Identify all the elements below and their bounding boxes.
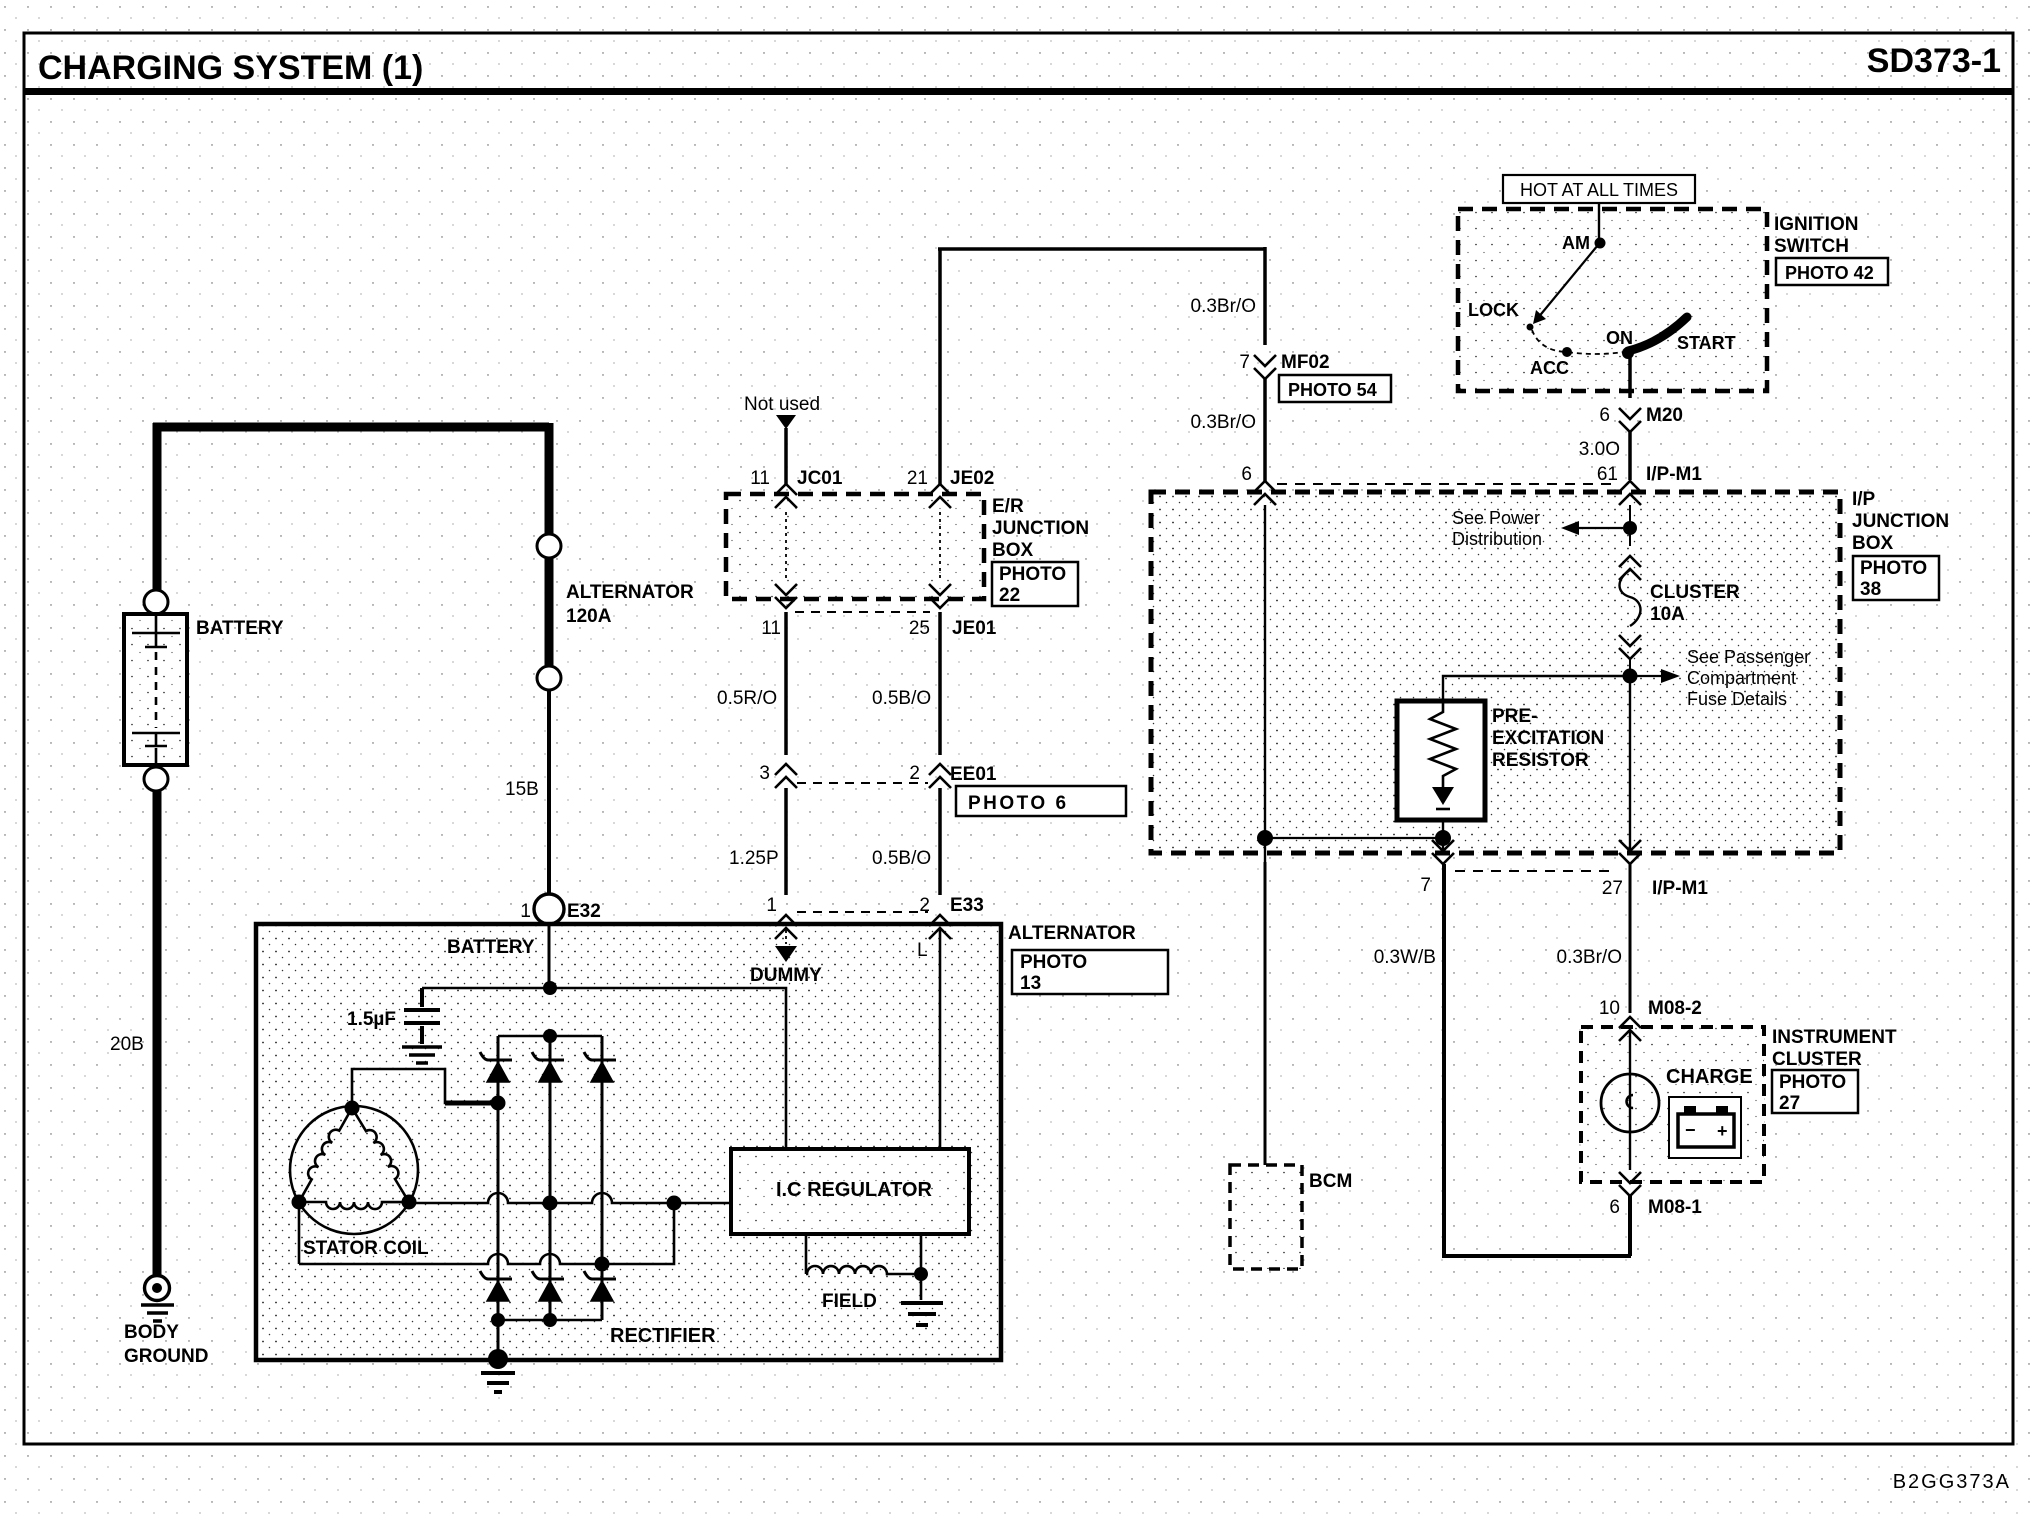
JC01 pass-through dotted wire <box>785 512 787 578</box>
JE01 connector link dashed line <box>795 611 930 613</box>
svg-text:0.3Br/O: 0.3Br/O <box>1191 412 1256 433</box>
svg-text:I.C REGULATOR: I.C REGULATOR <box>776 1179 932 1201</box>
resistor element zigzag <box>1430 701 1456 787</box>
svg-text:SD373-1: SD373-1 <box>1867 42 2001 80</box>
svg-text:ALTERNATOR: ALTERNATOR <box>1008 923 1136 944</box>
wire 0.3Br/O from pin27 to cluster <box>1629 864 1632 1013</box>
svg-text:10: 10 <box>1599 998 1620 1019</box>
E33 link dashed line <box>797 911 928 913</box>
wire IC regulator to field coil left <box>805 1234 808 1274</box>
photo 42 box <box>1776 258 1888 285</box>
diode D6 bottom <box>584 1271 616 1301</box>
node stator bottom-right vertex <box>402 1195 417 1210</box>
battery warning icon body <box>1678 1114 1734 1147</box>
svg-text:E/R: E/R <box>992 496 1024 517</box>
svg-text:PHOTO: PHOTO <box>999 564 1066 585</box>
svg-text:7: 7 <box>1420 875 1431 896</box>
svg-text:I/P-M1: I/P-M1 <box>1646 464 1702 485</box>
svg-text:0.3W/B: 0.3W/B <box>1374 947 1436 968</box>
svg-text:120A: 120A <box>566 606 612 627</box>
wire ignition ON output <box>1628 353 1632 398</box>
pre-excitation resistor R1 box <box>1397 701 1485 820</box>
connector M20 chevrons <box>1619 408 1641 432</box>
node top bus center <box>543 1029 557 1043</box>
svg-text:6: 6 <box>1609 1197 1620 1218</box>
svg-text:2: 2 <box>909 763 920 784</box>
svg-text:10A: 10A <box>1650 604 1685 625</box>
wire BCM 0.3Br/O drop <box>1264 862 1267 1165</box>
svg-text:Compartment: Compartment <box>1687 668 1796 688</box>
svg-text:B2GG373A: B2GG373A <box>1893 1471 2011 1493</box>
diode D2 top <box>532 1052 564 1082</box>
svg-text:PHOTO: PHOTO <box>1860 558 1927 579</box>
svg-text:AM: AM <box>1562 233 1590 253</box>
wire L to I.C regulator <box>939 930 942 1149</box>
alternator box <box>256 924 1001 1360</box>
svg-text:See Passenger: See Passenger <box>1687 647 1810 667</box>
svg-text:6: 6 <box>1599 405 1610 426</box>
connector 61 chevrons at I/P box top <box>1619 481 1641 505</box>
not used terminator triangle <box>776 415 796 429</box>
svg-text:1.5µF: 1.5µF <box>347 1009 396 1030</box>
rectifier column 2 <box>549 1036 552 1320</box>
node BCM wire junction <box>1257 830 1273 846</box>
svg-text:START: START <box>1677 333 1736 353</box>
wire 0.5B/O upper <box>938 612 942 755</box>
wire battery top horizontal (thick) <box>153 423 549 432</box>
BCM box (dashed) <box>1230 1165 1302 1269</box>
svg-text:3: 3 <box>759 763 770 784</box>
svg-text:JC01: JC01 <box>797 468 843 489</box>
photo 13 box <box>1012 950 1168 994</box>
svg-text:61: 61 <box>1597 464 1618 485</box>
node stator bottom-left vertex <box>292 1195 307 1210</box>
svg-text:3.0O: 3.0O <box>1579 439 1620 460</box>
node ACC position <box>1562 347 1572 357</box>
svg-text:CLUSTER: CLUSTER <box>1650 582 1740 603</box>
connector E32 terminal circle <box>534 894 564 924</box>
node power distribution tap <box>1623 521 1637 535</box>
battery bottom terminal circle <box>144 767 168 791</box>
svg-text:JE01: JE01 <box>952 618 997 639</box>
svg-text:M08-2: M08-2 <box>1648 998 1702 1019</box>
wire 0.3Br/O MF02 to I/P box <box>1263 378 1267 482</box>
capacitor ground <box>402 1047 442 1063</box>
charge lamp circle <box>1601 1074 1659 1132</box>
field coil L1 <box>806 1266 888 1274</box>
svg-text:1: 1 <box>520 901 531 922</box>
svg-text:LOCK: LOCK <box>1468 300 1519 320</box>
wire E32 into box <box>548 922 551 990</box>
node bottom bus column2 <box>543 1313 557 1327</box>
svg-text:BODY: BODY <box>124 1322 179 1343</box>
connector EE01 chevrons right <box>929 764 951 788</box>
svg-text:I/P-M1: I/P-M1 <box>1652 878 1708 899</box>
svg-text:ALTERNATOR: ALTERNATOR <box>566 582 694 603</box>
battery icon terminals <box>1684 1106 1696 1114</box>
svg-text:−: − <box>1685 1120 1696 1140</box>
svg-text:INSTRUMENT: INSTRUMENT <box>1772 1027 1897 1048</box>
wire JE02 riser from top run <box>938 249 942 485</box>
svg-text:13: 13 <box>1020 973 1041 994</box>
battery warning icon outer box <box>1669 1097 1741 1158</box>
node resistor bottom junction <box>1435 830 1451 846</box>
wire BCM branch horizontal <box>1265 837 1443 839</box>
svg-text:22: 22 <box>999 585 1020 606</box>
dummy arrow (no connection) <box>785 930 787 944</box>
svg-text:11: 11 <box>761 618 781 639</box>
body ground symbol <box>145 1276 170 1301</box>
field ground symbol <box>901 1303 943 1325</box>
svg-text:IGNITION: IGNITION <box>1774 214 1858 235</box>
connector EE01 chevrons left <box>775 764 797 788</box>
rectifier top bus <box>498 1035 602 1038</box>
svg-text:See Power: See Power <box>1452 508 1540 528</box>
wire into charge lamp <box>1629 1030 1631 1170</box>
wire 0.5B/O lower <box>938 788 942 895</box>
wire connector6 down to BCM (through box) <box>1264 505 1266 862</box>
diode D4 bottom <box>480 1271 512 1301</box>
svg-text:CHARGE: CHARGE <box>1666 1066 1753 1088</box>
svg-text:+: + <box>1717 1121 1728 1141</box>
key stroke ON to START (thick) <box>1628 317 1687 351</box>
node passenger fuse tap <box>1623 669 1638 684</box>
connector JC01 chevrons at box top <box>775 484 797 508</box>
wire 15B segment <box>547 690 551 895</box>
svg-text:38: 38 <box>1860 579 1881 600</box>
node AM terminal <box>1595 238 1606 249</box>
not used stub wire <box>784 428 788 485</box>
svg-text:0.5B/O: 0.5B/O <box>872 688 931 709</box>
connector M08-1 chevrons <box>1619 1172 1641 1196</box>
wire 1.25P <box>784 788 788 895</box>
svg-text:BATTERY: BATTERY <box>447 937 535 958</box>
wire stator bottom-left vertex drop <box>298 1202 301 1264</box>
svg-text:E33: E33 <box>950 895 984 916</box>
svg-text:Not used: Not used <box>744 394 820 415</box>
node middle bus right <box>667 1196 682 1211</box>
svg-text:PRE-: PRE- <box>1492 706 1537 727</box>
ignition switch wiper AM to LOCK <box>1537 245 1598 319</box>
E/R junction box (dashed) <box>726 494 984 599</box>
svg-text:0.5B/O: 0.5B/O <box>872 848 931 869</box>
svg-text:I/P: I/P <box>1852 489 1876 510</box>
connector 6 chevrons at I/P box top <box>1254 481 1276 505</box>
wire stator top vertex to rectifier column 1 <box>352 1069 470 1108</box>
node rectifier ground <box>488 1349 508 1369</box>
hot at all times box <box>1503 175 1695 203</box>
fuse chevrons bottom <box>1619 635 1641 659</box>
svg-text:BCM: BCM <box>1309 1171 1352 1192</box>
node rectifier column1 phase tap <box>491 1096 506 1111</box>
rectifier lower phase bus <box>299 1203 674 1264</box>
connector 7 chevrons at box bottom <box>1432 840 1454 864</box>
wire alternator feed vertical (thick) <box>545 423 554 534</box>
diode D1 top <box>480 1052 512 1082</box>
fusible link wire segment <box>545 558 554 666</box>
connector JE02 chevrons at box top <box>929 484 951 508</box>
svg-text:CHARGING SYSTEM (1): CHARGING SYSTEM (1) <box>38 49 423 87</box>
svg-text:JE02: JE02 <box>950 468 994 489</box>
title rule <box>24 88 2013 95</box>
svg-text:PHOTO 6: PHOTO 6 <box>968 793 1069 814</box>
wire 0.3Br/O down to MF02 <box>1263 247 1267 345</box>
wire ignition feed inside box <box>1629 505 1631 546</box>
switch position arc LOCK-ACC-ON (dashed) <box>1532 330 1624 354</box>
fusible link bottom circle <box>537 666 561 690</box>
stator coil delta winding bottom side <box>299 1202 409 1209</box>
diode D3 top <box>584 1052 616 1082</box>
svg-text:15B: 15B <box>505 779 539 800</box>
stator coil delta winding left side <box>293 1105 352 1203</box>
see power distribution arrow <box>1578 527 1623 529</box>
wire battery sense horizontal to I.C regulator <box>422 988 786 1149</box>
svg-text:L: L <box>917 940 928 961</box>
svg-text:RESISTOR: RESISTOR <box>1492 750 1589 771</box>
svg-text:21: 21 <box>907 468 928 489</box>
svg-text:RECTIFIER: RECTIFIER <box>610 1325 716 1347</box>
connector E33 chevrons pin1 <box>775 915 797 939</box>
rectifier column 1 <box>497 1036 500 1359</box>
svg-text:BOX: BOX <box>992 540 1034 561</box>
wire 20B battery to body ground (thick) <box>153 791 162 1276</box>
see passenger arrow <box>1637 675 1662 677</box>
svg-text:JUNCTION: JUNCTION <box>1852 511 1949 532</box>
wire fuse to passenger tap <box>1629 658 1631 700</box>
diode D5 bottom <box>532 1271 564 1301</box>
resistor arrow <box>1432 787 1454 805</box>
photo 27 box <box>1772 1070 1858 1113</box>
capacitor 1.5uF <box>404 988 440 1044</box>
svg-text:CLUSTER: CLUSTER <box>1772 1049 1862 1070</box>
node lower bus column3 <box>595 1257 610 1272</box>
svg-text:STATOR COIL: STATOR COIL <box>303 1238 429 1259</box>
instrument cluster box (dashed) <box>1581 1027 1764 1182</box>
battery BT1 box <box>124 614 187 765</box>
svg-text:7: 7 <box>1239 352 1250 373</box>
svg-text:20B: 20B <box>110 1034 144 1055</box>
svg-text:1: 1 <box>766 895 777 916</box>
photo 54 box <box>1279 375 1391 402</box>
JE02 pass-through dotted wire <box>939 512 941 578</box>
stator coil circle <box>290 1106 418 1234</box>
connector M08-2 chevrons <box>1619 1017 1641 1041</box>
node LOCK position <box>1527 324 1534 331</box>
svg-text:PHOTO 54: PHOTO 54 <box>1288 380 1377 400</box>
battery internal plates <box>132 614 180 647</box>
wire ignition column to 27 <box>1629 676 1631 855</box>
svg-text:PHOTO: PHOTO <box>1020 952 1087 973</box>
node field ground junction <box>914 1267 928 1281</box>
wire 3.0O <box>1628 431 1632 480</box>
svg-text:PHOTO 42: PHOTO 42 <box>1785 263 1874 283</box>
ignition switch box (dashed) <box>1458 209 1767 391</box>
svg-text:BATTERY: BATTERY <box>196 618 284 639</box>
svg-text:PHOTO: PHOTO <box>1779 1072 1846 1093</box>
photo 22 box <box>992 562 1078 606</box>
fuse cluster 10A chevrons top <box>1619 556 1641 580</box>
rectifier column 3 <box>601 1036 604 1320</box>
battery top terminal circle <box>144 590 168 614</box>
svg-text:0.5R/O: 0.5R/O <box>717 688 777 709</box>
svg-text:BOX: BOX <box>1852 533 1894 554</box>
svg-text:1.25P: 1.25P <box>729 848 779 869</box>
svg-text:SWITCH: SWITCH <box>1774 236 1849 257</box>
photo 6 box <box>956 786 1126 816</box>
node bottom bus column1 <box>491 1313 505 1327</box>
svg-text:GROUND: GROUND <box>124 1346 208 1367</box>
I/P junction box (dashed) <box>1151 492 1840 853</box>
svg-text:25: 25 <box>909 618 930 639</box>
charge lamp filament <box>1627 1095 1634 1108</box>
connector link 6 to 61 dashed <box>1277 483 1616 485</box>
svg-text:EE01: EE01 <box>950 764 997 785</box>
node middle bus column2 <box>543 1196 558 1211</box>
connector chevrons at box bottom right <box>929 584 951 608</box>
svg-text:6: 6 <box>1241 464 1252 485</box>
svg-text:MF02: MF02 <box>1281 352 1330 373</box>
svg-text:DUMMY: DUMMY <box>750 965 822 986</box>
connector E33 chevrons pin2 <box>929 915 951 939</box>
svg-text:ON: ON <box>1606 328 1633 348</box>
svg-text:EXCITATION: EXCITATION <box>1492 728 1604 749</box>
rectifier bottom bus <box>498 1319 602 1322</box>
svg-text:ACC: ACC <box>1530 358 1569 378</box>
svg-text:27: 27 <box>1779 1093 1800 1114</box>
node battery sense junction <box>543 981 557 995</box>
svg-text:E32: E32 <box>567 901 601 922</box>
svg-text:11: 11 <box>750 468 770 489</box>
svg-text:0.3Br/O: 0.3Br/O <box>1557 947 1622 968</box>
connector 27 chevrons at box bottom <box>1619 840 1641 864</box>
svg-text:27: 27 <box>1602 878 1623 899</box>
wire top run JE02 to MF02 corner <box>938 247 1265 251</box>
fuse cluster 10A element <box>1620 570 1641 626</box>
wire battery left vertical (thick) <box>153 423 162 590</box>
fusible link ALTERNATOR 120A top circle <box>537 534 561 558</box>
svg-text:HOT AT ALL TIMES: HOT AT ALL TIMES <box>1520 180 1678 200</box>
rectifier ground symbol <box>481 1373 515 1392</box>
IC regulator U1 box <box>731 1149 969 1234</box>
wire field coil right <box>888 1234 921 1300</box>
wire resistor bottom <box>1442 820 1444 855</box>
connector link 7 to 27 dashed <box>1455 870 1617 872</box>
wire 0.3W/B from pin7 <box>1444 864 1631 1256</box>
svg-text:Fuse Details: Fuse Details <box>1687 689 1787 709</box>
wire hot feed to AM terminal <box>1598 203 1600 242</box>
svg-text:Distribution: Distribution <box>1452 529 1542 549</box>
svg-text:M20: M20 <box>1646 405 1683 426</box>
photo 38 box <box>1853 556 1939 600</box>
wire 0.5R/O <box>784 612 788 755</box>
node stator top vertex <box>345 1101 360 1116</box>
svg-text:JUNCTION: JUNCTION <box>992 518 1089 539</box>
EE01 link dashed line <box>797 782 928 784</box>
stator coil delta winding right side <box>352 1104 415 1202</box>
connector chevrons at box bottom left <box>775 584 797 608</box>
wire resistor top feed <box>1443 676 1630 701</box>
svg-text:M08-1: M08-1 <box>1648 1197 1702 1218</box>
wire M08-1 down to return <box>1628 1195 1632 1256</box>
node ON position <box>1622 347 1634 359</box>
svg-text:2: 2 <box>919 895 930 916</box>
svg-text:0.3Br/O: 0.3Br/O <box>1191 296 1256 317</box>
connector MF02 chevrons <box>1254 355 1276 379</box>
svg-text:FIELD: FIELD <box>822 1291 877 1312</box>
rectifier middle phase bus <box>409 1193 731 1203</box>
